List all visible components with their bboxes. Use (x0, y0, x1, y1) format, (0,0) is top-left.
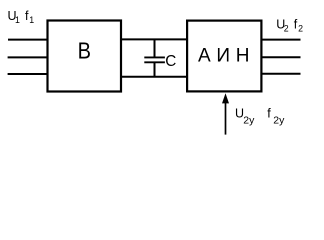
wire input phase 3 (8, 73, 47, 75)
wire output phase 1 (262, 39, 301, 41)
svg-text:В: В (78, 38, 91, 63)
capacitor C (144, 39, 165, 76)
arrowhead (222, 93, 229, 103)
wire input phase 1 (8, 39, 47, 41)
wire dc bus negative (122, 76, 188, 78)
wire output phase 3 (262, 73, 301, 75)
capacitor top plate (144, 56, 165, 58)
wire capacitor bottom lead (154, 63, 156, 77)
block U2 АИН (inverter) (187, 21, 261, 92)
wire dc bus positive (122, 38, 188, 40)
wire input phase 2 (8, 56, 47, 58)
wire output phase 2 (262, 56, 301, 58)
wire capacitor top lead (154, 39, 156, 57)
capacitor bottom plate (144, 61, 165, 63)
block B (rectifier) (48, 21, 122, 92)
wire control arrow shaft (225, 102, 227, 135)
svg-text:C: C (165, 53, 176, 70)
svg-text:АИН: АИН (198, 46, 250, 67)
control input arrow (222, 93, 229, 134)
